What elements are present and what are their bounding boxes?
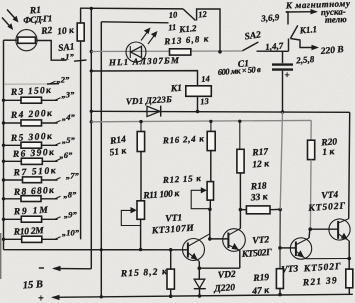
node R11 bottom [139,248,143,252]
node R14 top [139,120,142,123]
svg-text:10 к: 10 к [57,26,76,38]
resistor R9 [4,216,58,222]
wire R11 bottom [140,219,142,249]
node VD1 wire left [90,110,93,113]
svg-text:1,4,7: 1,4,7 [265,40,284,52]
wire R16 bottom to R12 [210,151,212,182]
diode VD1 [147,106,161,117]
node R7 row [2,178,5,181]
resistor R18 [240,206,280,214]
svg-text:VT2: VT2 [252,235,270,246]
contact tick 6 [55,159,61,162]
svg-text:R12 15 к: R12 15 к [162,173,202,185]
wire relay coil feed [91,71,197,86]
svg-text:VD2: VD2 [218,270,237,281]
wire 220V branch [290,39,315,48]
relay contact K1.1 fixed [286,12,288,25]
node x101 plus rail [100,295,103,298]
resistor R13 [170,49,191,55]
resistor R21 [346,269,353,294]
wire base rail y250 [4,249,188,251]
svg-text:220 В: 220 В [319,45,344,57]
photoresistor R1 (ФСД-Г1) [16,30,37,51]
wire R14 bottom to R11 [140,152,142,201]
resistor R15 [167,250,174,296]
svg-text:„6”: „6” [60,150,74,160]
node R18 left [239,208,243,212]
svg-text:14: 14 [201,73,210,84]
wire K1.1 bottom to SA2 wire [288,39,290,52]
SA1 wiper tick [74,60,87,61]
scan edge artifact [0,233,1,279]
wire coil bottom [197,96,199,111]
svg-text:„8”: „8” [64,190,78,200]
transistor VT1 [183,234,210,262]
svg-text:ФСД-Г1: ФСД-Г1 [23,13,53,25]
LED HL1 emission arrows [141,28,158,45]
switch SA2 blade [242,42,258,51]
svg-text:„3”: „3” [62,90,76,100]
wire column to VT3 base [279,209,281,248]
capacitor C1 lead top [282,51,284,63]
wire VT3 collector up [308,229,311,238]
wire main middle rail [91,111,349,112]
wire VT4 emitter down [348,241,350,269]
resistor R8 [4,196,58,202]
svg-text:К1.2: К1.2 [178,23,198,35]
contact tick 10 [55,237,61,240]
node VD2 bottom [198,294,202,298]
node R16 top [209,120,212,123]
resistor R5 [4,142,58,148]
diode VD2 [194,268,206,296]
wire VT1 collector to VT2 base [209,209,211,239]
wire VT3 emitter link [306,258,350,260]
node coil bottom [196,110,200,114]
potentiometer R12 [191,182,213,209]
node VT2 base tee [208,237,212,241]
transistor VT2 [223,229,246,252]
svg-text:12: 12 [198,9,208,20]
left bus vertical [3,40,5,250]
resistor R10 [4,236,58,242]
node R12 bottom / VT1 collector [208,208,212,212]
node gray bus left [90,120,93,123]
node R4 row [2,121,5,124]
contact tick 9 [55,217,61,220]
svg-text:R2: R2 [40,26,53,37]
wire minus lead [54,268,91,270]
wire emitter link [199,267,240,269]
wire position 2 stub [4,83,47,85]
wire VT4 base [310,228,338,230]
svg-text:33 к: 33 к [250,192,270,203]
svg-text:+: + [285,70,290,80]
wire gray bus [91,120,311,121]
svg-text:„5”: „5” [62,135,76,145]
svg-text:„1”: „1” [61,52,75,62]
node R6 row [2,160,5,163]
node emitters VT3/VT4 [347,257,351,261]
resistor R7 [4,177,58,183]
svg-text:телю: телю [325,14,348,25]
contact tick 8 [55,196,61,199]
wire R1 right elbow to SA1 position 1 [37,41,66,61]
transistor VT4 [329,219,350,241]
resistor R16 [207,121,215,150]
resistor R17 [237,121,244,173]
svg-text:R18: R18 [250,181,268,192]
node R5 row [2,144,5,147]
node C1 bottom on rail [281,110,285,114]
node R15 bottom [169,294,173,298]
relay contact K1.2 blade [183,9,196,21]
contact tick 5 [55,143,61,146]
node R13 right [218,50,222,54]
node R19 bottom [278,293,282,297]
node top rail / bus [90,7,93,10]
node coil wire left [90,69,93,72]
capacitor C1 [272,65,293,70]
node R3 row [2,99,5,102]
SA1 wiper line down [80,41,82,239]
svg-text:К1.1: К1.1 [298,24,317,36]
wire R17 bottom to VT2 collector [239,173,241,229]
transistor VT3 [290,238,311,259]
node VT1/VT2 emitters [198,266,202,270]
photoresistor R1 light arrows [2,10,19,31]
svg-text:3,6,9: 3,6,9 [260,12,280,24]
wire LED row [91,50,242,53]
svg-text:„7”: „7” [66,171,80,181]
node rail x101 [100,248,103,251]
wire C1 minus column [280,112,282,209]
wire R1 left to bus [4,39,17,41]
wire R12 bottom [209,200,211,209]
node VT3 base [278,246,282,250]
node R18 right [278,208,282,212]
wire R20 bottom [309,160,312,230]
wire VT3 base [280,247,296,249]
capacitor C1 lead bottom [282,71,284,112]
svg-text:11: 11 [168,22,177,33]
wire SA2 right [257,50,289,52]
svg-text:15 В: 15 В [22,279,43,291]
resistor R4 [4,120,58,126]
wire R20 top corner [310,120,312,140]
resistor R2 [77,8,84,41]
svg-text:„10”: „10” [62,228,80,238]
node VT3 collector / VT4 base / R20 [308,227,312,231]
wire VT2 base [210,238,228,240]
svg-text:Д220: Д220 [213,283,236,295]
svg-text:13: 13 [200,96,210,107]
svg-text:+: + [38,294,44,303]
svg-text:К1: К1 [170,84,183,95]
resistor R20 [308,140,315,159]
svg-text:R19: R19 [252,273,270,284]
svg-text:VT3: VT3 [281,264,299,275]
svg-text:VT1: VT1 [165,213,183,224]
svg-text:10: 10 [168,9,178,20]
svg-text:R17: R17 [251,147,270,158]
resistor R3 [4,97,58,103]
LED HL1 [126,42,146,62]
label minus [39,267,44,269]
resistor R14 [137,122,144,152]
node LED wire left [90,50,93,53]
relay coil K1 [186,86,212,97]
resistor R19 [276,248,283,295]
wire top rail [80,7,183,10]
node R8 row [2,197,5,200]
resistor R6 [4,158,58,164]
wire VT2 emitter [239,250,241,268]
relay contact K1.2 fixed contact 12 [197,9,220,52]
wire right bus down [349,112,350,218]
contact tick 3 [55,98,61,101]
svg-text:1 к: 1 к [322,147,336,158]
wire contact 11 [101,22,168,23]
contact tick 4 [55,121,61,124]
svg-text:12 к: 12 к [252,159,271,170]
wire main left bus (minus) [90,8,92,268]
node R9 row [2,218,5,221]
relay contact K1.1 blade [290,25,297,38]
node R17 top [238,120,241,123]
node R10 row [2,238,5,241]
potentiometer R11 [121,201,144,226]
svg-text:„9”: „9” [64,210,78,220]
wire bottom plus rail [53,294,353,297]
wire VT1 emitter down [198,261,200,268]
wire contact 11 drop [100,22,102,296]
node R15 top [169,248,173,252]
svg-text:2,5,8: 2,5,8 [295,54,315,66]
contact tick 7 [55,178,61,181]
wire K1.1 top to starter arrow [286,11,314,13]
svg-text:„4”: „4” [62,112,76,122]
svg-text:VT4: VT4 [321,190,339,201]
contact tick 2 [50,81,56,83]
